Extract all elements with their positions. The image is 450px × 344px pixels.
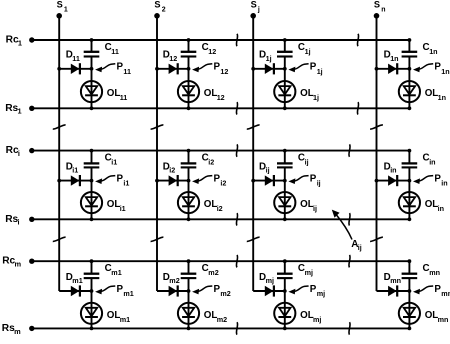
label C12 — [202, 42, 217, 56]
break symbols on row Rci — [236, 144, 350, 156]
junction on column Sn at diode branch (cell in) — [375, 179, 379, 183]
break symbol on column S1 (upper) — [53, 125, 66, 129]
wire: row line Rsi — [32, 218, 410, 220]
wire: row line Rci — [32, 150, 410, 152]
svg-text:1j: 1j — [266, 54, 272, 63]
wire: column line S2 — [156, 16, 158, 291]
svg-text:mj: mj — [305, 268, 313, 277]
label Dmj — [259, 272, 274, 285]
break symbols on row Rcm — [236, 255, 350, 267]
break symbols on row Rc1 — [236, 34, 358, 46]
svg-text:S: S — [57, 0, 63, 10]
svg-text:ij: ij — [266, 166, 270, 175]
wire: row line Rc1 — [32, 39, 410, 41]
label Di2 — [163, 161, 176, 174]
wire: diode branch from S1 to node P11 — [59, 68, 91, 70]
label Pm2 — [214, 284, 231, 298]
label S1 — [57, 0, 68, 13]
wire: diode branch from Sj to node Pij — [253, 180, 285, 182]
diode D1n — [388, 63, 397, 74]
diode Dm1 — [71, 285, 80, 296]
capacitor Cm1 — [84, 261, 100, 291]
wire: diode branch from Sj to node Pmj — [253, 290, 285, 292]
wire: diode branch from S2 to node Pi2 — [157, 180, 189, 182]
LED OL12 — [178, 69, 199, 109]
wire: diode branch from Sj to node P1j — [253, 68, 285, 70]
svg-text:i2: i2 — [208, 158, 214, 167]
break symbol on column S1 (lower) — [53, 237, 66, 241]
svg-text:i2: i2 — [169, 166, 175, 175]
node P12 (junction) — [187, 67, 191, 71]
node Pi2 (junction) — [187, 179, 191, 183]
diode Dij — [265, 175, 274, 186]
svg-text:OL: OL — [425, 88, 439, 99]
label Cmn — [423, 263, 440, 277]
junction: branch of cell 12 on row Rc1 — [187, 38, 191, 42]
capacitor Cij — [277, 151, 293, 181]
junction: OLm1 stem on row Rsm — [90, 327, 94, 331]
LED OLin — [399, 181, 420, 220]
svg-text:j: j — [257, 6, 260, 13]
LED OLm1 — [81, 291, 102, 328]
svg-text:mj: mj — [313, 315, 321, 324]
svg-text:S: S — [154, 0, 160, 10]
junction: branch of cell mn on row Rcm — [408, 259, 412, 263]
terminal dot Rs1 — [29, 106, 34, 111]
capacitor Cin — [402, 151, 418, 181]
label P11 — [117, 62, 132, 76]
label Dmn — [384, 272, 401, 285]
junction on column Sj at diode branch (cell ij) — [251, 179, 255, 183]
junction: branch of cell 1n on row Rc1 — [408, 38, 412, 42]
svg-text:OL: OL — [300, 88, 314, 99]
label Pi1 — [117, 174, 130, 188]
break symbol on column Sj (lower) — [247, 237, 260, 241]
label OLi1 — [107, 199, 126, 213]
node S2: column select terminal dot — [154, 13, 160, 19]
junction: OLm2 stem on row Rsm — [187, 327, 191, 331]
svg-text:OL: OL — [425, 199, 439, 210]
LED OL1n — [399, 69, 420, 109]
terminal dot Rsm — [29, 326, 34, 331]
svg-text:OL: OL — [204, 199, 218, 210]
svg-text:i1: i1 — [120, 204, 126, 213]
svg-text:m: m — [14, 327, 21, 336]
break symbols on row Rsm — [236, 322, 350, 334]
label OLij — [300, 199, 317, 213]
terminal dot Rcm — [29, 259, 34, 264]
label Rsm — [2, 323, 21, 336]
svg-text:in: in — [429, 158, 435, 167]
label Dij — [259, 161, 270, 174]
capacitor Ci1 — [84, 151, 100, 181]
arrow pointing to node Pi1 — [95, 176, 115, 184]
label Dm2 — [163, 272, 180, 285]
diode Dm2 — [169, 285, 178, 296]
svg-text:1n: 1n — [438, 93, 446, 102]
label OL12 — [204, 88, 225, 102]
terminal dot Rsi — [29, 217, 34, 222]
break symbol on column Sn (upper) — [370, 125, 383, 129]
diode Di2 — [169, 175, 178, 186]
label Dm1 — [66, 272, 83, 285]
svg-text:OL: OL — [204, 88, 218, 99]
svg-text:m2: m2 — [220, 289, 230, 298]
svg-text:mn: mn — [390, 276, 401, 285]
label Rc1 — [6, 35, 22, 48]
node Sj: column select terminal dot — [250, 13, 256, 19]
annotation A_ij with curved arrow pointing at cell ij — [332, 210, 352, 240]
label Cin — [423, 152, 436, 166]
junction: branch of cell m1 on row Rcm — [90, 259, 94, 263]
svg-text:mj: mj — [317, 289, 325, 298]
junction: OLmn stem on row Rsm — [408, 327, 412, 331]
arrow pointing to node Pm2 — [192, 286, 212, 294]
wire: diode branch from S1 to node Pi1 — [59, 180, 91, 182]
break symbol on column Sj (upper) — [247, 125, 260, 129]
label OLin — [425, 199, 444, 213]
label Aij — [351, 239, 362, 252]
break symbols on row Rs1 — [236, 102, 358, 114]
svg-text:11: 11 — [111, 47, 119, 56]
node Pin (junction) — [408, 179, 412, 183]
label C1j — [298, 42, 311, 56]
label OLm2 — [204, 310, 227, 324]
label OL1n — [425, 88, 446, 102]
LED OL1j — [274, 69, 295, 109]
svg-text:mn: mn — [438, 315, 449, 324]
junction: branch of cell 1j on row Rc1 — [283, 38, 287, 42]
label OLm1 — [107, 310, 130, 324]
svg-text:ij: ij — [317, 179, 321, 188]
terminal dot Rc1 — [29, 37, 34, 42]
LED OLi1 — [81, 181, 102, 220]
svg-text:1n: 1n — [441, 67, 449, 76]
junction on column S2 at diode branch (cell i2) — [155, 179, 159, 183]
junction: branch of cell mj on row Rcm — [283, 259, 287, 263]
svg-text:12: 12 — [208, 47, 216, 56]
svg-text:2: 2 — [162, 6, 166, 13]
diode Din — [388, 175, 397, 186]
svg-text:11: 11 — [123, 67, 131, 76]
svg-text:m: m — [15, 260, 22, 269]
wire: column line Sj — [252, 16, 254, 291]
label P1j — [310, 62, 323, 76]
label OLmn — [425, 310, 449, 324]
label P12 — [214, 62, 229, 76]
capacitor Cm2 — [181, 261, 197, 291]
junction on column S1 at diode branch (cell 11) — [57, 67, 61, 71]
label Pij — [310, 174, 321, 188]
node Pmn (junction) — [408, 289, 412, 293]
arrow pointing to node P1n — [413, 64, 433, 72]
svg-text:i: i — [18, 149, 20, 158]
junction on column S2 at diode branch (cell 12) — [155, 67, 159, 71]
wire: row line Rcm — [32, 260, 410, 262]
capacitor Cmj — [277, 261, 293, 291]
LED OLm2 — [178, 291, 199, 328]
LED OL11 — [81, 69, 102, 109]
break symbols on row Rsi — [236, 213, 350, 225]
junction: branch of cell in on row Rci — [408, 149, 412, 153]
svg-text:ij: ij — [305, 158, 309, 167]
svg-text:m2: m2 — [208, 268, 218, 277]
arrow pointing to node P11 — [95, 64, 115, 72]
node Pi1 (junction) — [90, 179, 94, 183]
junction: OLi2 stem on row Rsi — [187, 217, 191, 221]
junction on column Sj at diode branch (cell 1j) — [251, 67, 255, 71]
label C1n — [423, 42, 438, 56]
svg-text:mj: mj — [266, 276, 274, 285]
svg-text:OL: OL — [204, 310, 218, 321]
label Rci — [6, 145, 20, 158]
svg-text:n: n — [381, 6, 385, 13]
junction: OL1n stem on row Rs1 — [408, 106, 412, 110]
junction: branch of cell m2 on row Rcm — [187, 259, 191, 263]
wire: diode branch from S1 to node Pm1 — [59, 290, 91, 292]
arrow pointing to node Pmn — [413, 286, 433, 294]
svg-text:in: in — [390, 166, 396, 175]
node S1: column select terminal dot — [56, 13, 62, 19]
capacitor C1j — [277, 40, 293, 69]
label Pin — [434, 174, 447, 188]
label Din — [384, 161, 397, 174]
svg-text:m1: m1 — [120, 315, 130, 324]
label Ci1 — [105, 152, 118, 166]
node Sn: column select terminal dot — [374, 13, 380, 19]
svg-text:in: in — [438, 204, 444, 213]
junction on column Sn at diode branch (cell 1n) — [375, 67, 379, 71]
diode D1j — [265, 63, 274, 74]
junction: OLin stem on row Rsi — [408, 217, 412, 221]
label OLmj — [300, 310, 321, 324]
label OL1j — [300, 88, 319, 102]
svg-text:ij: ij — [313, 204, 317, 213]
label Pi2 — [214, 174, 227, 188]
capacitor C1n — [402, 40, 418, 69]
wire: diode branch from Sn to node P1n — [377, 68, 410, 70]
svg-text:11: 11 — [72, 54, 80, 63]
arrow pointing to node Pm1 — [95, 286, 115, 294]
node P11 (junction) — [90, 67, 94, 71]
capacitor C11 — [84, 40, 100, 69]
label D1n — [384, 50, 399, 63]
svg-text:mn: mn — [441, 289, 450, 298]
arrow pointing to node Pi2 — [192, 176, 212, 184]
label Cm1 — [105, 263, 122, 277]
label Di1 — [66, 161, 79, 174]
svg-text:OL: OL — [300, 310, 314, 321]
label Ci2 — [202, 152, 215, 166]
wire: diode branch from Sn to node Pmn — [377, 290, 410, 292]
node P1j (junction) — [283, 67, 287, 71]
svg-text:m1: m1 — [72, 276, 82, 285]
svg-text:OL: OL — [300, 199, 314, 210]
junction: OL1j stem on row Rs1 — [283, 106, 287, 110]
label D11 — [66, 50, 80, 63]
LED OLi2 — [178, 181, 199, 220]
wire: diode branch from Sn to node Pin — [377, 180, 410, 182]
svg-text:ij: ij — [358, 243, 362, 252]
wire: diode branch from S2 to node P12 — [157, 68, 189, 70]
svg-text:12: 12 — [169, 54, 177, 63]
junction: branch of cell 11 on row Rc1 — [90, 38, 94, 42]
label Pm1 — [117, 284, 134, 298]
label Sj — [251, 0, 260, 13]
arrow pointing to node P1j — [288, 64, 308, 72]
LED OLmj — [274, 291, 295, 328]
svg-text:i2: i2 — [220, 179, 226, 188]
label P1n — [434, 62, 449, 76]
junction: branch of cell i1 on row Rci — [90, 149, 94, 153]
svg-text:i1: i1 — [111, 158, 117, 167]
wire: row line Rs1 — [32, 107, 410, 109]
svg-text:OL: OL — [425, 310, 439, 321]
label Cmj — [298, 263, 313, 277]
capacitor Ci2 — [181, 151, 197, 181]
label OL11 — [107, 88, 128, 102]
label Pmn — [434, 284, 450, 298]
LED OLij — [274, 181, 295, 220]
arrow pointing to node Pij — [288, 176, 308, 184]
node Pm1 (junction) — [90, 289, 94, 293]
label Cij — [298, 152, 309, 166]
svg-text:OL: OL — [107, 88, 121, 99]
arrow pointing to node Pmj — [288, 286, 308, 294]
arrow pointing to node Pin — [413, 176, 433, 184]
diode Dmj — [265, 285, 274, 296]
label Sn — [374, 0, 386, 13]
svg-text:i2: i2 — [217, 204, 223, 213]
capacitor Cmn — [402, 261, 418, 291]
label D12 — [163, 50, 178, 63]
junction: OL11 stem on row Rs1 — [90, 106, 94, 110]
diode Dmn — [388, 285, 397, 296]
svg-text:1n: 1n — [429, 47, 437, 56]
arrow pointing to node P12 — [192, 64, 212, 72]
svg-text:1: 1 — [18, 38, 22, 47]
svg-text:m1: m1 — [111, 268, 121, 277]
junction: OL12 stem on row Rs1 — [187, 106, 191, 110]
node Pij (junction) — [283, 179, 287, 183]
svg-text:1: 1 — [64, 6, 68, 13]
svg-text:1j: 1j — [313, 93, 319, 102]
svg-text:i1: i1 — [123, 179, 129, 188]
svg-text:m2: m2 — [217, 315, 227, 324]
label Rsi — [5, 214, 19, 227]
label Pmj — [310, 284, 325, 298]
terminal dot Rci — [29, 148, 34, 153]
svg-text:S: S — [251, 0, 257, 10]
node Pm2 (junction) — [187, 289, 191, 293]
svg-text:i1: i1 — [72, 166, 78, 175]
svg-text:m2: m2 — [169, 276, 179, 285]
label Cm2 — [202, 263, 219, 277]
junction: branch of cell ij on row Rci — [283, 149, 287, 153]
node P1n (junction) — [408, 67, 412, 71]
wire: column line S1 — [58, 16, 60, 291]
label S2 — [154, 0, 165, 13]
label Rcm — [2, 256, 21, 269]
svg-text:12: 12 — [220, 67, 228, 76]
svg-text:i: i — [18, 218, 20, 227]
label C11 — [105, 42, 119, 56]
junction on column S1 at diode branch (cell i1) — [57, 179, 61, 183]
svg-text:1j: 1j — [305, 47, 311, 56]
junction: branch of cell i2 on row Rci — [187, 149, 191, 153]
label Rs1 — [5, 103, 21, 116]
label OLi2 — [204, 199, 223, 213]
svg-text:m1: m1 — [123, 289, 133, 298]
svg-text:in: in — [441, 179, 447, 188]
diode D11 — [71, 63, 80, 74]
svg-text:11: 11 — [120, 93, 128, 102]
diode Di1 — [71, 175, 80, 186]
svg-text:1: 1 — [18, 107, 22, 116]
svg-text:S: S — [374, 0, 380, 10]
break symbol on column S2 (upper) — [151, 125, 164, 129]
break symbol on column Sn (lower) — [370, 237, 383, 241]
svg-text:12: 12 — [217, 93, 225, 102]
svg-text:mn: mn — [429, 268, 440, 277]
svg-text:1n: 1n — [390, 54, 398, 63]
capacitor C12 — [181, 40, 197, 69]
junction: OLi1 stem on row Rsi — [90, 217, 94, 221]
junction: OLij stem on row Rsi — [283, 217, 287, 221]
svg-text:OL: OL — [107, 199, 121, 210]
diode D12 — [169, 63, 178, 74]
wire: column line Sn — [376, 16, 378, 291]
svg-text:1j: 1j — [317, 67, 323, 76]
node Pmj (junction) — [283, 289, 287, 293]
junction: OLmj stem on row Rsm — [283, 327, 287, 331]
svg-text:OL: OL — [107, 310, 121, 321]
wire: diode branch from S2 to node Pm2 — [157, 290, 189, 292]
LED OLmn — [399, 291, 420, 328]
label D1j — [259, 50, 272, 63]
break symbol on column S2 (lower) — [151, 237, 164, 241]
wire: row line Rsm — [32, 327, 410, 329]
